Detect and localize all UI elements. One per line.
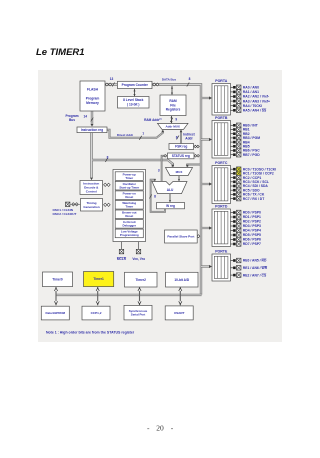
box RAM File Registers — [160, 95, 186, 116]
connector Program Counter to DATA bus — [153, 83, 159, 86]
pin PORTE row: RE0 / AN5 / <tspan text-decoration="overline">RD</tspan> — [231, 258, 267, 263]
svg-text:Memory: Memory — [86, 101, 99, 105]
svg-text:8: 8 — [176, 135, 178, 139]
wire MUX output into ALU — [178, 176, 180, 181]
svg-text:RB7 / PGD: RB7 / PGD — [243, 153, 260, 157]
pin PORTA row: RA2 / AN2 / Vref- — [231, 94, 270, 99]
wire RAM Addr 9 between Addr MUX and RAM File Registers — [171, 116, 173, 123]
pin PORTB row: RB5 — [231, 144, 250, 149]
wire data bus to PORTE — [201, 265, 212, 268]
box Low Voltage Programming — [115, 229, 143, 238]
wire data bus to PORTD — [201, 226, 212, 229]
svg-text:(1): (1) — [159, 118, 162, 120]
pin PORTD row: RD7 / PSP7 — [231, 242, 262, 247]
pin PORTE row: RE2 / AN7 / <tspan text-decoration="overline">CS</tspan> — [231, 273, 267, 278]
box CCP1,2 — [82, 306, 110, 320]
box Brown-out Reset — [115, 210, 143, 219]
pin MCLR and VDD VSS lines — [121, 242, 123, 250]
pin PORTB row: RB0 / INT — [231, 123, 258, 128]
wire Parallel Slave Port to data bus — [197, 235, 200, 237]
svg-text:13: 13 — [110, 77, 114, 81]
svg-text:Timer: Timer — [125, 205, 134, 209]
svg-text:20: 20 — [156, 424, 164, 433]
svg-text:RA2 / AN2 / Vref-: RA2 / AN2 / Vref- — [243, 95, 269, 99]
wire FSR reg to data bus — [194, 146, 200, 148]
pin PORTD row: RD1 / PSP1 — [231, 215, 262, 220]
mux Addr MUX — [158, 123, 189, 129]
wire Direct Addr 7 from Instruction reg to Addr MUX — [107, 130, 163, 138]
box FSR reg — [169, 144, 194, 150]
box W reg — [157, 203, 185, 209]
svg-text:Timer1: Timer1 — [93, 277, 104, 281]
pin PORTC row: RC1 / T1OSI / CCP2 — [231, 171, 274, 176]
pin PORTC row: RC0 / T1OSO / T1CKI — [231, 167, 277, 172]
wire W reg feedback loop to ALU left input — [151, 180, 165, 212]
wire Indirect Addr from FSR to Addr MUX — [180, 131, 182, 144]
wire data bus to PORTC — [201, 182, 212, 185]
wire DATA bus to RAM File Registers double arrow — [171, 86, 173, 95]
diagram panel background — [38, 70, 282, 342]
svg-text:STATUS reg: STATUS reg — [172, 154, 190, 158]
box STATUS reg — [168, 153, 195, 159]
svg-text:W reg: W reg — [166, 204, 175, 208]
svg-text:Timer0: Timer0 — [52, 277, 63, 281]
wire 8-bit literal from instruction reg to MUX left input — [92, 160, 173, 167]
svg-text:Data EEPROM: Data EEPROM — [45, 311, 65, 315]
svg-text:Debugger: Debugger — [123, 224, 137, 228]
pin PORTD row: RD3 / PSP3 — [231, 224, 262, 229]
box USART — [165, 306, 193, 320]
svg-text:Direct Addr: Direct Addr — [117, 133, 134, 137]
svg-text:8: 8 — [154, 195, 156, 199]
box In-Circuit Debugger — [115, 220, 143, 229]
svg-text:Generation: Generation — [83, 205, 99, 209]
pin PORTD row: RD6 / PSP6 — [231, 237, 262, 242]
svg-text:Timer2: Timer2 — [136, 278, 147, 282]
wire peripheral connector vertical — [179, 287, 181, 305]
pin PORTD row: RD0 / PSP0 — [231, 210, 262, 215]
box Power-up Timer — [115, 172, 143, 181]
pin PORTE row: RE1 / AN6 / <tspan text-decoration="overline">WR</tspan> — [231, 266, 268, 271]
svg-text:RAM Addr: RAM Addr — [144, 118, 160, 122]
box Data EEPROM — [41, 306, 69, 320]
svg-text:Note 1 : High order bits are f: Note 1 : High order bits are from the ST… — [46, 330, 135, 334]
slash mark 8 on W loop — [149, 195, 151, 199]
port block PORTC — [212, 161, 231, 204]
port block PORTB — [212, 116, 231, 158]
svg-text:RE1 / AN6 / WR: RE1 / AN6 / WR — [243, 266, 268, 270]
wire FLASH to Program Counter arrowheads — [105, 83, 111, 86]
box Program Counter — [118, 81, 153, 88]
pin PORTC row: RC4 / SDI / SDA — [231, 184, 269, 189]
slash mark 7 on direct addr — [139, 136, 141, 140]
svg-text:RD1 / PSP1: RD1 / PSP1 — [243, 215, 261, 219]
svg-text:Control: Control — [86, 190, 97, 194]
slash mark 14 on program bus — [91, 118, 93, 122]
box Timer2 — [125, 272, 158, 287]
pin PORTD row: RD2 / PSP2 — [231, 219, 262, 224]
svg-text:RE2 / AN7 / CS: RE2 / AN7 / CS — [243, 273, 267, 277]
port block PORTA — [212, 79, 231, 115]
pin PORTA row: RA0 / AN0 — [231, 85, 260, 90]
svg-text:CCP1,2: CCP1,2 — [91, 311, 102, 315]
box Synchronous Serial Port — [124, 305, 152, 320]
wire data bus to MUX right input — [187, 165, 200, 167]
svg-text:7: 7 — [142, 132, 144, 136]
svg-text:RA3 / AN3 / Vref+: RA3 / AN3 / Vref+ — [243, 99, 270, 103]
wire ALU output to W reg — [169, 194, 171, 202]
page number — [147, 424, 174, 433]
pin PORTB row: RB7 / PGD — [231, 152, 261, 157]
svg-text:FLASH: FLASH — [87, 88, 99, 92]
svg-text:Registers: Registers — [166, 108, 181, 112]
svg-text:RD4 / PSP4: RD4 / PSP4 — [243, 229, 261, 233]
mux MUX (ALU input select) — [166, 168, 193, 176]
box Oscillator Start-up Timer — [115, 181, 143, 190]
box Parallel Slave Port — [165, 230, 198, 243]
svg-text:Programming: Programming — [120, 233, 139, 237]
port block PORTD — [212, 204, 231, 246]
svg-text:PORTD: PORTD — [215, 204, 228, 208]
svg-text:PORTB: PORTB — [215, 116, 228, 120]
wire peripheral connector vertical — [55, 287, 57, 305]
pin PORTC row: RC3 / SCK / SCL — [231, 180, 269, 185]
wire Program Counter to Stack double arrow — [134, 89, 136, 96]
svg-text:Serial Port: Serial Port — [131, 313, 145, 317]
svg-text:MUX: MUX — [176, 170, 183, 174]
svg-text:Reset: Reset — [125, 195, 133, 199]
svg-text:8 Level Stack: 8 Level Stack — [123, 98, 143, 102]
wire 13-bit bus FLASH to Program Counter — [105, 83, 117, 85]
svg-text:PORTC: PORTC — [215, 161, 228, 165]
svg-text:RD6 / PSP6: RD6 / PSP6 — [243, 238, 261, 242]
svg-text:RD3 / PSP3: RD3 / PSP3 — [243, 224, 261, 228]
wire STATUS reg to data bus — [194, 155, 200, 157]
svg-text:FSR reg: FSR reg — [175, 145, 187, 149]
port block PORTE — [212, 249, 231, 281]
pin PORTB row: RB2 — [231, 131, 250, 136]
svg-text:3: 3 — [158, 168, 160, 172]
pin PORTD row: RD5 / PSP5 — [231, 233, 262, 238]
wire peripheral connector vertical — [139, 287, 141, 305]
slash mark 8 on literal bus — [105, 158, 107, 162]
svg-text:RD7 / PSP7: RD7 / PSP7 — [243, 242, 261, 246]
box Power-on Reset — [115, 191, 143, 200]
box Watchdog Timer — [115, 200, 143, 209]
wire data bus to PORTA — [201, 96, 212, 99]
svg-text:Parallel Slave Port: Parallel Slave Port — [167, 235, 194, 239]
svg-text:10-bit A/D: 10-bit A/D — [174, 278, 189, 282]
pin PORTB row: RB3 / PGM — [231, 136, 261, 141]
svg-text:RA1 / AN1: RA1 / AN1 — [243, 90, 259, 94]
connector Timing Generation to reset box diamonds — [104, 203, 111, 206]
pin OSC pad and connector — [66, 202, 70, 206]
box Instruction reg — [77, 127, 107, 133]
svg-text:MCLR: MCLR — [117, 257, 127, 261]
svg-text:Addr: Addr — [185, 137, 193, 141]
pin PORTA row: RA1 / AN1 — [231, 90, 260, 95]
svg-text:RC7 / RX / DT: RC7 / RX / DT — [243, 197, 264, 201]
svg-text:Instruction reg: Instruction reg — [81, 128, 103, 132]
wire program bus FLASH down to Instruction reg — [91, 110, 93, 125]
pin PORTB row: RB1 — [231, 127, 250, 132]
svg-text:Timer: Timer — [125, 176, 134, 180]
wire data bus to PORTB — [201, 138, 212, 141]
svg-text:OSC2 / CLKOUT: OSC2 / CLKOUT — [53, 212, 77, 216]
svg-text:Program: Program — [86, 96, 100, 100]
svg-text:RA4 / T0CKI: RA4 / T0CKI — [243, 104, 262, 108]
alu ALU — [152, 182, 187, 194]
svg-text:PORTA: PORTA — [215, 79, 227, 83]
svg-text:Program Counter: Program Counter — [122, 83, 149, 87]
pin PORTA row: RA3 / AN3 / Vref+ — [231, 99, 271, 104]
wire STATUS reg to ALU — [162, 156, 167, 181]
svg-text:RD5 / PSP5: RD5 / PSP5 — [243, 233, 261, 237]
svg-text:RA5 / AN4 / SS: RA5 / AN4 / SS — [243, 109, 267, 113]
pin PORTC row: RC5 / SDO — [231, 188, 261, 193]
svg-text:Le TIMER1: Le TIMER1 — [36, 47, 85, 58]
slash mark 9 on RAM addr — [170, 118, 172, 122]
pin PORTD row: RD4 / PSP4 — [231, 228, 262, 233]
svg-text:8: 8 — [189, 77, 191, 81]
wire peripheral connector vertical — [97, 287, 99, 305]
svg-text:9: 9 — [175, 117, 177, 121]
slash mark 8 on indirect addr — [177, 136, 179, 140]
svg-text:( 13-bit ): ( 13-bit ) — [127, 103, 139, 107]
svg-text:RE0 / AN5 / RD: RE0 / AN5 / RD — [243, 259, 267, 263]
box reset-and-timers group — [113, 170, 146, 242]
connector IDC to reset box diamonds — [104, 183, 111, 186]
svg-text:Bus: Bus — [69, 118, 75, 122]
pin PORTC row: RC6 / TX / CK — [231, 192, 265, 197]
svg-text:8: 8 — [107, 155, 109, 159]
svg-text:DATA Bus: DATA Bus — [162, 78, 177, 82]
svg-text:Reset: Reset — [125, 214, 133, 218]
box Instruction Decode and Control — [80, 181, 103, 195]
svg-text:Addr MUX: Addr MUX — [165, 125, 180, 129]
pin PORTC row: RC2 / CCP1 — [231, 175, 262, 180]
svg-text:RD0 / PSP0: RD0 / PSP0 — [243, 211, 261, 215]
svg-text:VDD, VSS: VDD, VSS — [132, 257, 145, 261]
pin PORTB row: RB6 / PGC — [231, 148, 261, 153]
svg-text:RD2 / PSP2: RD2 / PSP2 — [243, 220, 261, 224]
box Timing Generation — [81, 199, 103, 212]
svg-text:USART: USART — [174, 311, 185, 315]
slash mark 8 on DATA bus — [187, 83, 189, 87]
svg-text:Start-up Timer: Start-up Timer — [119, 185, 140, 189]
wire DATA Bus 8 (top horizontal + right vertical) — [152, 85, 201, 295]
pin PORTA row: RA4 / T0CKI — [231, 103, 263, 108]
wire peripheral bus horizontal — [56, 294, 202, 296]
box Timer0 — [43, 272, 73, 287]
svg-text:14: 14 — [84, 114, 88, 118]
pin PORTA row: RA5 / AN4 / <tspan text-decoration="overline">SS</tspan> — [231, 108, 267, 113]
wire Instruction reg to Instruction Decode — [90, 133, 92, 179]
pin PORTC row: RC7 / RX / DT — [231, 196, 265, 201]
pin PORTB row: RB4 — [231, 140, 250, 145]
box 10-bit A/D — [166, 272, 199, 287]
box Timer1 (highlighted) — [84, 272, 114, 287]
box 8 Level Stack — [118, 97, 150, 109]
svg-text:ALU: ALU — [167, 188, 174, 192]
box FLASH Program Memory — [80, 81, 105, 111]
svg-text:RA0 / AN0: RA0 / AN0 — [243, 86, 259, 90]
svg-text:PORTE: PORTE — [215, 249, 228, 253]
